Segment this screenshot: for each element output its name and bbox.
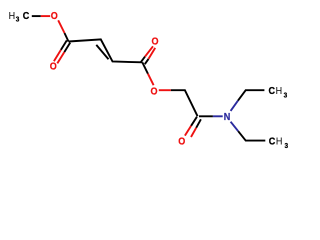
bond H3C-O1 red half	[41, 15, 50, 17]
bond C4-O4 black half	[142, 62, 148, 73]
bond C7-N blue half	[213, 115, 223, 117]
svg-text:O: O	[51, 10, 58, 22]
bond C7-N black half	[199, 115, 213, 117]
double bond C1=O2 line2 black part	[64, 43, 70, 53]
svg-text:C: C	[269, 85, 276, 97]
double bond C4=O3 line1 red part	[145, 46, 153, 56]
bond N-C8 blue half	[231, 101, 238, 111]
bond O1-C1 red half	[58, 20, 64, 33]
svg-text:H: H	[9, 10, 16, 22]
svg-text:O: O	[178, 136, 185, 148]
chemical structure: 2-(diethylamino)-2-oxoethyl methyl fumarate	[0, 0, 300, 161]
svg-text:C: C	[23, 10, 30, 22]
double bond C4=O3 line2 red part	[149, 48, 156, 59]
bond O4-C6 red half	[159, 89, 171, 91]
double bond C1=O2 line1 black part	[61, 40, 67, 50]
svg-text:C: C	[269, 136, 276, 148]
double bond C7=O5 line2 red part	[191, 128, 196, 137]
bond C4-O4 red half	[148, 74, 154, 86]
bond O4-C6 black half and C6-C7	[171, 90, 198, 116]
bond O1-C1 black half	[65, 33, 69, 42]
chain C1-C2=C3-C4 main backbone	[69, 39, 143, 62]
double bond C7=O5 line1 black part	[191, 117, 197, 126]
svg-text:H: H	[276, 85, 283, 97]
svg-text:3: 3	[285, 143, 289, 151]
double bond C4=O3 line2 black part	[145, 59, 149, 64]
double bond C1=O2 line2 red part	[57, 52, 64, 63]
svg-text:O: O	[50, 61, 57, 73]
double bond C2=C3 inner line	[96, 45, 108, 59]
bond N-C8 black half and C8-CH3 upper	[238, 90, 264, 100]
bond H3C-O1 black half	[32, 15, 41, 17]
svg-text:3: 3	[284, 92, 288, 100]
svg-text:O: O	[150, 86, 157, 98]
svg-text:N: N	[224, 111, 231, 123]
double bond C7=O5 line1 red part	[185, 126, 191, 136]
bond N-C9 blue half	[231, 122, 239, 132]
svg-text:H: H	[276, 136, 283, 148]
double bond C1=O2 line1 red part	[54, 50, 61, 61]
svg-text:O: O	[151, 36, 158, 48]
double bond C4=O3 line1 black part	[141, 57, 145, 63]
bond N-C9 black half and C9-CH3 lower	[238, 131, 265, 140]
double bond C7=O5 line2 black part	[196, 119, 201, 128]
svg-text:3: 3	[16, 16, 20, 24]
